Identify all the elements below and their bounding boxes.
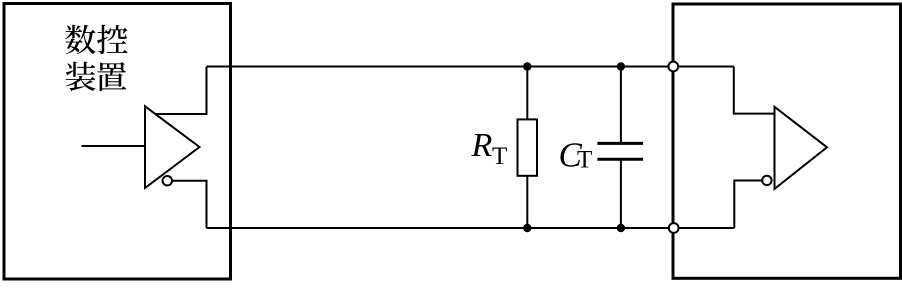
bottom bus wire bbox=[207, 227, 735, 229]
left box: CNC device enclosure bbox=[4, 4, 231, 280]
label 数控装置 bbox=[65, 25, 127, 91]
open node circle top on right box edge bbox=[668, 62, 678, 72]
wire RT branch bbox=[526, 67, 528, 229]
inverter bubble on driver output bbox=[163, 176, 172, 185]
top bus wire bbox=[207, 66, 734, 68]
inverter bubble on receiver input bbox=[762, 176, 771, 185]
wire top bus to receiver input bbox=[734, 67, 775, 114]
receiver buffer triangle bbox=[775, 107, 828, 189]
wire CT branch bottom bbox=[620, 159, 622, 228]
capacitor CT plates bbox=[597, 143, 643, 159]
wire bottom bus to receiver bubble bbox=[734, 181, 762, 229]
junction dot CT bottom bbox=[617, 224, 625, 232]
svg-text:R: R bbox=[471, 127, 493, 164]
svg-text:T: T bbox=[577, 147, 592, 174]
right box: receiver device enclosure bbox=[673, 4, 901, 278]
wire CT branch top bbox=[620, 67, 622, 144]
resistor RT body bbox=[518, 119, 538, 175]
junction dot RT top bbox=[523, 62, 531, 70]
wire from driver bubble to bottom bus bbox=[172, 181, 207, 228]
junction dot CT top bbox=[617, 62, 625, 70]
open node circle bottom on right box edge bbox=[669, 223, 679, 233]
junction dot RT bottom bbox=[523, 224, 531, 232]
wire from driver top edge to top bus bbox=[156, 67, 207, 115]
driver input wire bbox=[82, 145, 146, 147]
svg-text:T: T bbox=[492, 143, 507, 170]
driver buffer triangle bbox=[145, 106, 200, 188]
